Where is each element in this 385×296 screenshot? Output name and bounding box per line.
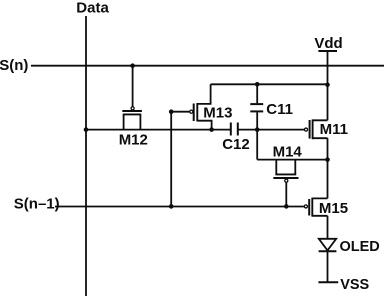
svg-text:C11: C11 (266, 101, 293, 118)
svg-text:S(n–1): S(n–1) (14, 196, 60, 213)
transistor M14 (273, 144, 303, 207)
wire M13 gate wire (171, 111, 189, 113)
wire row W1 right segment (238, 129, 304, 131)
node junction C11 top (255, 82, 260, 87)
svg-text:S(n): S(n) (0, 57, 28, 74)
power VSS symbol (318, 277, 369, 293)
diode OLED (319, 239, 380, 255)
node junction C11 bottom / storage node (255, 127, 260, 132)
wire row W1 left segment (86, 129, 230, 131)
wire Data line (vertical) (85, 16, 87, 296)
wire vertical to S(n-1) (170, 112, 172, 207)
svg-text:C12: C12 (222, 136, 250, 153)
wire OLED cathode to VSS (327, 251, 329, 282)
transistor M15 (304, 198, 348, 217)
wire W2 (257, 159, 327, 161)
svg-text:Vdd: Vdd (314, 35, 342, 52)
svg-text:M13: M13 (203, 104, 232, 121)
svg-text:M15: M15 (319, 200, 348, 217)
transistor M12 (119, 107, 148, 149)
node junction W0 / Vdd rail (325, 83, 330, 88)
node junction M13 gate corner (169, 109, 174, 114)
transistor M11 (304, 119, 348, 139)
svg-text:Data: Data (76, 0, 109, 16)
transistor M13 (190, 84, 233, 129)
node junction W2 / drain rail (325, 157, 330, 162)
wire M12 gate stub (132, 66, 134, 107)
capacitor C11 (250, 84, 293, 129)
node junction M14 gate / S(n-1) (284, 204, 289, 209)
node junction at S(n-1) (169, 204, 174, 209)
svg-text:M12: M12 (119, 131, 148, 148)
node junction Data line / row wire (84, 127, 89, 132)
svg-text:M14: M14 (273, 144, 303, 161)
svg-text:M11: M11 (320, 121, 348, 138)
wire Vdd rail (327, 51, 329, 120)
wire drop to W2 (256, 130, 258, 160)
node junction M13 drain / row wire (209, 127, 214, 132)
wire S(n) scan line (31, 65, 384, 67)
svg-text:OLED: OLED (340, 239, 380, 255)
svg-text:VSS: VSS (340, 277, 369, 293)
wire top rail W0 (211, 83, 328, 85)
node junction S(n) to M12 gate (130, 63, 135, 68)
capacitor C12 (222, 123, 250, 153)
wire M11 drain rail (327, 138, 329, 198)
wire S(n-1) scan line (55, 206, 304, 208)
power Vdd symbol (314, 35, 342, 52)
wire M15 source to OLED (327, 216, 329, 239)
